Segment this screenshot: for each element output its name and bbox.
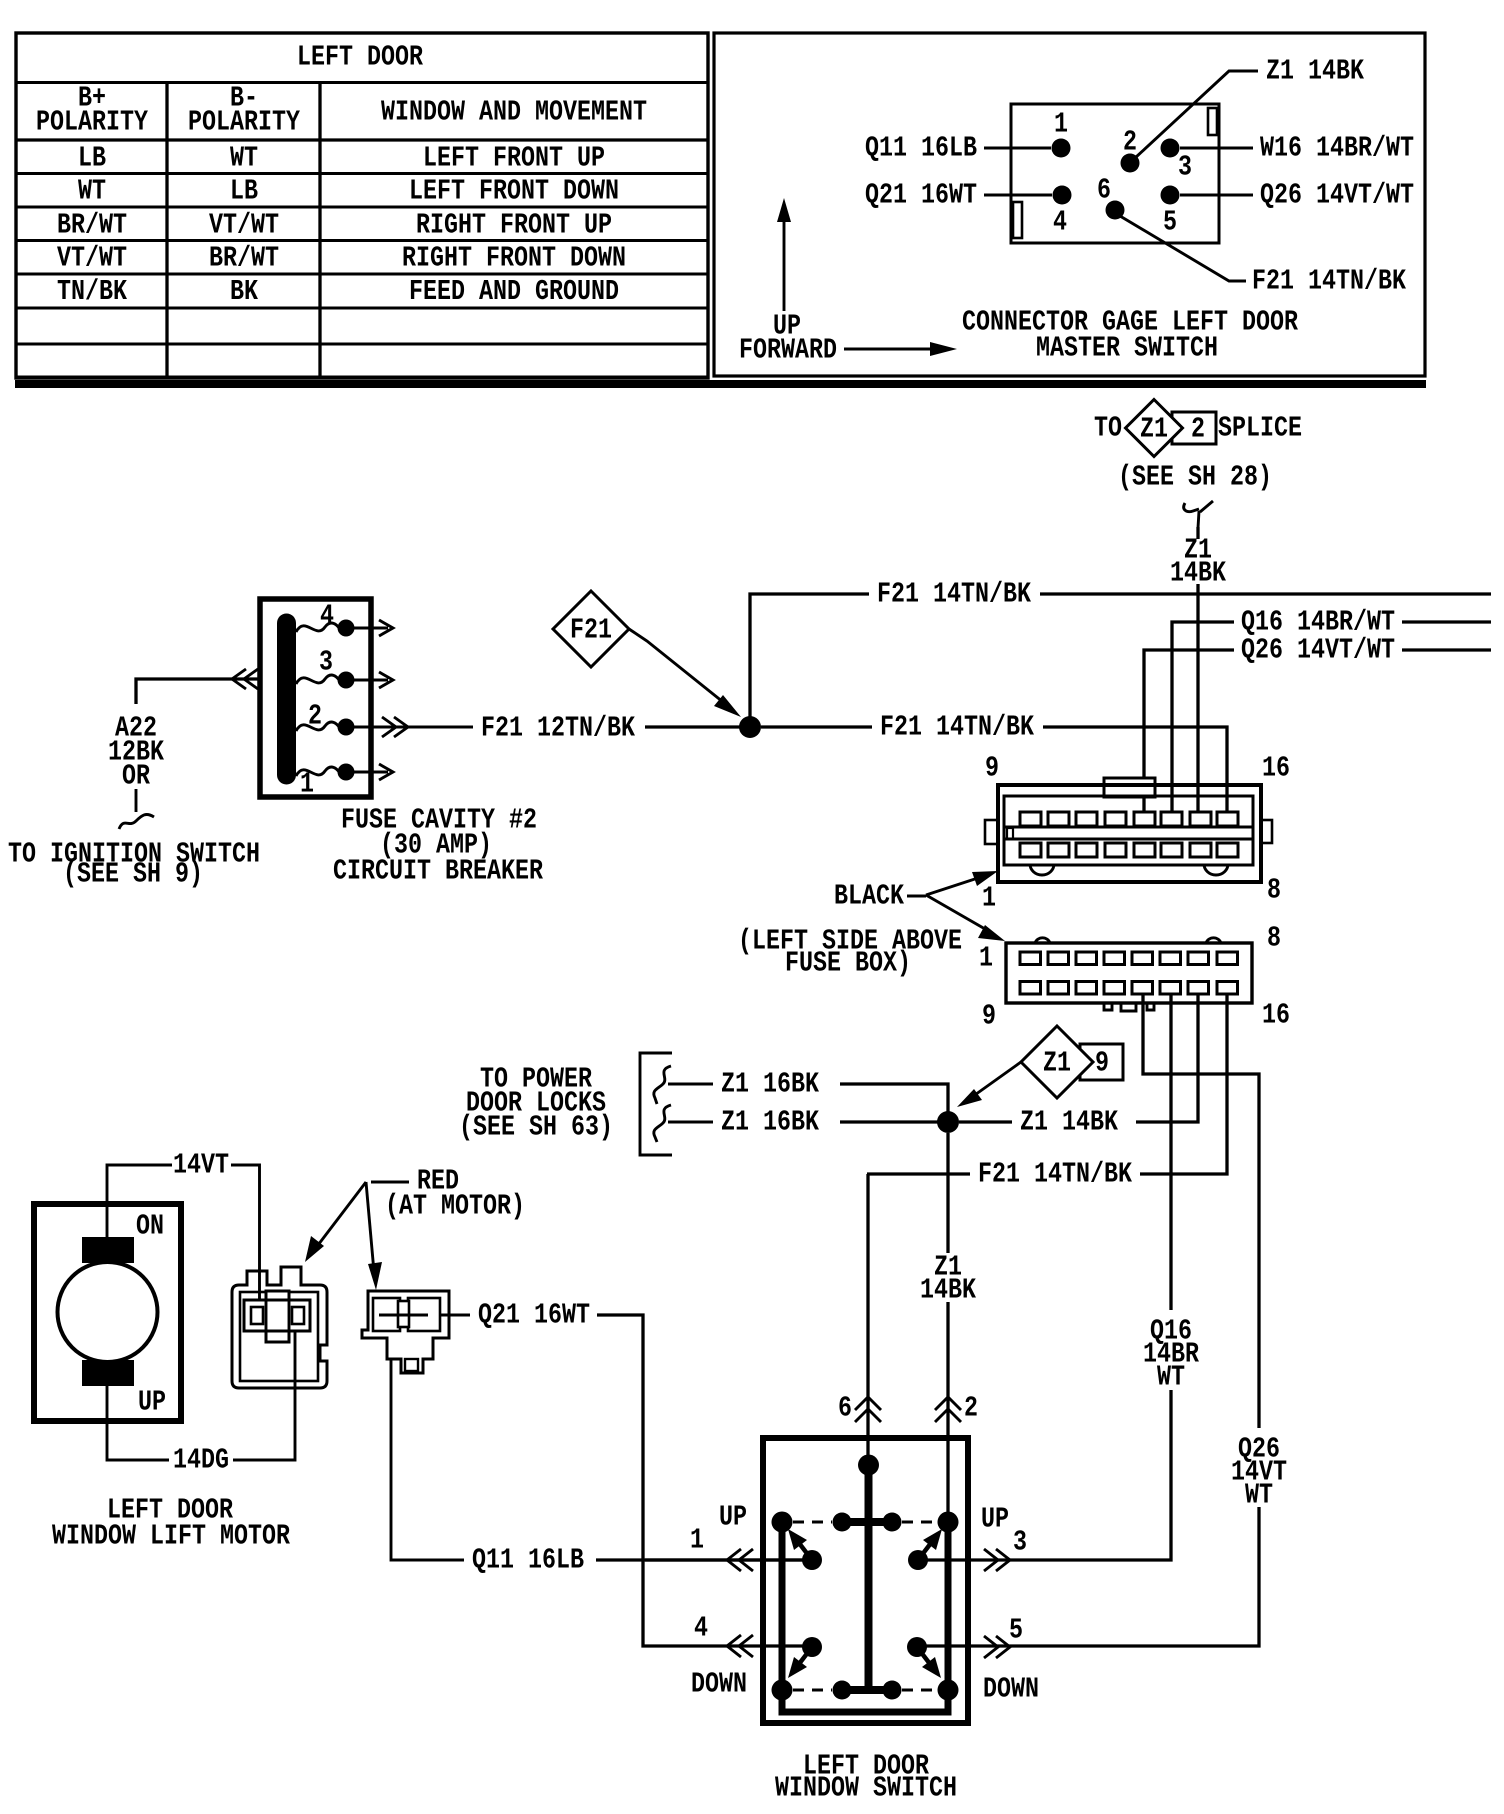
svg-text:BLACK: BLACK <box>834 880 904 913</box>
svg-text:16: 16 <box>1262 999 1290 1032</box>
svg-text:2: 2 <box>1123 126 1137 159</box>
svg-text:F21 14TN/BK: F21 14TN/BK <box>880 711 1034 744</box>
wire Q26 14VT/WT row <box>1144 634 1491 813</box>
caption connector gage <box>962 306 1298 365</box>
svg-text:1: 1 <box>300 768 314 801</box>
svg-text:(SEE SH 63): (SEE SH 63) <box>459 1111 613 1144</box>
switch center pole <box>842 1465 892 1690</box>
svg-text:Z1 16BK: Z1 16BK <box>721 1068 819 1101</box>
svg-text:BK: BK <box>230 275 258 308</box>
wire A22 from ignition switch <box>8 669 260 891</box>
svg-text:UP: UP <box>981 1503 1009 1536</box>
svg-text:MASTER SWITCH: MASTER SWITCH <box>1036 332 1218 365</box>
label W16 14BR/WT <box>1180 132 1414 165</box>
svg-text:4: 4 <box>1053 206 1067 239</box>
breaker pin 3 <box>296 646 393 689</box>
wire pin1 <box>645 1501 804 1572</box>
svg-text:Z1: Z1 <box>1140 413 1168 446</box>
caption left side above fuse box <box>738 925 962 980</box>
label Z1 14BK pin2 leader <box>1135 55 1364 159</box>
svg-text:(SEE SH 9): (SEE SH 9) <box>63 858 203 891</box>
wire Z1 14BK to switch pin 2 <box>920 1133 976 1522</box>
label Q21 16WT <box>865 179 1052 212</box>
switch row1 nodes <box>772 1512 959 1533</box>
svg-text:8: 8 <box>1267 922 1281 955</box>
left door window switch box <box>763 1438 968 1723</box>
switch pin3 contact with arrow <box>908 1529 942 1570</box>
C1 slots row 9-16 <box>1020 812 1238 826</box>
16-way connector C1 body <box>985 778 1272 882</box>
svg-text:Z1 16BK: Z1 16BK <box>721 1106 819 1139</box>
motor connector at 14VT <box>232 1267 327 1388</box>
label Q11 16LB <box>865 132 1051 165</box>
junction node Z1 <box>937 1111 959 1133</box>
svg-text:FORWARD: FORWARD <box>739 334 837 367</box>
switch pin1 contact with arrow <box>788 1529 822 1570</box>
wire Z1 14BK vertical label <box>1170 527 1226 812</box>
svg-text:WT: WT <box>1157 1361 1185 1394</box>
wire Q11 16LB <box>391 1359 804 1577</box>
wire Z1 16BK upper <box>668 1068 948 1113</box>
forward arrow <box>739 334 957 367</box>
svg-text:POLARITY: POLARITY <box>188 106 300 139</box>
svg-text:FUSE BOX): FUSE BOX) <box>785 947 911 980</box>
svg-text:(AT MOTOR): (AT MOTOR) <box>385 1190 525 1223</box>
svg-text:DOWN: DOWN <box>691 1668 747 1701</box>
wire Q16 14BR/WT vertical <box>927 994 1199 1560</box>
svg-text:TN/BK: TN/BK <box>57 275 127 308</box>
svg-text:RIGHT FRONT UP: RIGHT FRONT UP <box>416 209 612 242</box>
switch pin5 contact with arrow <box>907 1637 941 1678</box>
svg-text:5: 5 <box>1163 206 1177 239</box>
svg-text:1: 1 <box>982 882 996 915</box>
svg-text:4: 4 <box>320 600 334 633</box>
svg-text:Q11 16LB: Q11 16LB <box>865 132 977 165</box>
circuit breaker fuse cavity 2 <box>260 599 371 797</box>
label RED (AT MOTOR) <box>305 1165 525 1291</box>
svg-text:4: 4 <box>694 1612 708 1645</box>
svg-text:W16 14BR/WT: W16 14BR/WT <box>1260 132 1414 165</box>
svg-text:WINDOW LIFT MOTOR: WINDOW LIFT MOTOR <box>52 1520 290 1553</box>
svg-text:Q11 16LB: Q11 16LB <box>472 1544 584 1577</box>
svg-text:VT/WT: VT/WT <box>209 209 279 242</box>
svg-text:1: 1 <box>690 1524 704 1557</box>
svg-text:9: 9 <box>982 1000 996 1033</box>
svg-text:9: 9 <box>1095 1047 1109 1080</box>
wire Q21 16WT <box>441 1299 804 1647</box>
C2 slots row 9-16 <box>1020 982 1238 995</box>
svg-text:F21 14TN/BK: F21 14TN/BK <box>978 1158 1132 1191</box>
switch pin4 contact with arrow <box>788 1637 822 1678</box>
breaker pin 2 <box>296 700 473 738</box>
pin 6 <box>1097 174 1125 220</box>
wire Z1 16BK lower <box>668 1106 938 1139</box>
C1 pin labels <box>982 752 1290 915</box>
svg-text:FEED AND GROUND: FEED AND GROUND <box>409 275 619 308</box>
svg-text:3: 3 <box>1013 1526 1027 1559</box>
motor connector at Q21 <box>362 1291 449 1373</box>
wire pin3 <box>981 1503 1027 1572</box>
C2 slots row 1-8 <box>1020 952 1238 965</box>
svg-text:TO: TO <box>1094 412 1122 445</box>
F21 diamond callout <box>553 591 741 717</box>
svg-text:BR/WT: BR/WT <box>209 242 279 275</box>
switch contact frame <box>779 1522 952 1712</box>
left door window lift motor <box>34 1204 181 1421</box>
wire 14VT <box>107 1149 260 1313</box>
wire F21 to switch pin 6 <box>866 1174 869 1465</box>
svg-text:F21: F21 <box>570 614 612 647</box>
wire Z1 14BK to connector pin 15 <box>959 994 1198 1139</box>
junction node F21 <box>739 716 761 738</box>
caption lift motor <box>52 1494 290 1553</box>
svg-text:LEFT FRONT DOWN: LEFT FRONT DOWN <box>409 175 619 208</box>
C1 slots row 1-8 <box>1020 843 1238 857</box>
svg-text:WT: WT <box>1245 1479 1273 1512</box>
svg-text:(SEE SH 28): (SEE SH 28) <box>1118 461 1272 494</box>
splice symbol <box>1184 501 1213 528</box>
svg-text:Z1 14BK: Z1 14BK <box>1020 1106 1118 1139</box>
table bottom heavy rule <box>15 380 1426 388</box>
svg-text:WT: WT <box>78 175 106 208</box>
wire break symbol 2 <box>654 1105 671 1142</box>
svg-text:9: 9 <box>985 752 999 785</box>
svg-text:6: 6 <box>838 1392 852 1425</box>
svg-text:Z1 14BK: Z1 14BK <box>1266 55 1364 88</box>
svg-text:F21 14TN/BK: F21 14TN/BK <box>877 578 1031 611</box>
svg-text:POLARITY: POLARITY <box>36 106 148 139</box>
svg-text:14DG: 14DG <box>173 1444 229 1477</box>
table row lines <box>16 81 708 84</box>
C2 pin labels <box>979 922 1290 1033</box>
caption window switch <box>775 1750 957 1805</box>
wire 14DG <box>107 1330 295 1477</box>
switch bottom nodes <box>772 1680 959 1701</box>
svg-text:16: 16 <box>1262 752 1290 785</box>
svg-text:BR/WT: BR/WT <box>57 209 127 242</box>
svg-text:LEFT DOOR: LEFT DOOR <box>297 41 423 74</box>
svg-text:LEFT FRONT UP: LEFT FRONT UP <box>423 142 605 175</box>
left door table <box>15 33 1426 388</box>
svg-text:1: 1 <box>979 942 993 975</box>
svg-text:2: 2 <box>308 700 322 733</box>
pin 1 <box>1052 108 1071 158</box>
table column lines <box>165 83 168 380</box>
svg-text:WINDOW AND MOVEMENT: WINDOW AND MOVEMENT <box>381 96 647 129</box>
svg-text:F21 12TN/BK: F21 12TN/BK <box>481 712 635 745</box>
svg-text:Z1: Z1 <box>1043 1047 1071 1080</box>
wire F21 14TN/BK upper row <box>750 578 1491 728</box>
caption fuse cavity <box>333 804 543 888</box>
svg-text:14BK: 14BK <box>920 1274 976 1307</box>
chevrons pin6 <box>838 1392 881 1425</box>
pin 4 <box>1053 186 1072 239</box>
svg-text:8: 8 <box>1267 874 1281 907</box>
wire pin4 <box>691 1612 753 1701</box>
connector gage left door master switch body <box>1011 104 1219 243</box>
svg-text:LB: LB <box>230 175 258 208</box>
svg-text:CIRCUIT BREAKER: CIRCUIT BREAKER <box>333 855 543 888</box>
svg-text:OR: OR <box>122 760 150 793</box>
label F21 14TN/BK pin6 leader <box>1120 216 1406 298</box>
breaker pin 1 <box>296 764 393 801</box>
svg-text:F21 14TN/BK: F21 14TN/BK <box>1252 265 1406 298</box>
svg-text:DOWN: DOWN <box>983 1673 1039 1706</box>
16-way connector C2 body <box>1006 938 1252 1011</box>
svg-text:3: 3 <box>319 646 333 679</box>
label Q26 14VT/WT pin5 <box>1180 179 1414 212</box>
wire Q16 14BR/WT row <box>1172 606 1491 813</box>
connector gage header box <box>714 33 1425 376</box>
wire pin5 <box>983 1614 1039 1706</box>
pin 5 <box>1161 186 1180 239</box>
wire break symbol 1 <box>654 1066 671 1104</box>
splice callout TO Z1 2 SPLICE <box>1094 400 1302 494</box>
svg-text:5: 5 <box>1009 1614 1023 1647</box>
Z1 9 splice callout <box>957 1026 1123 1107</box>
switch common node pin6 <box>858 1455 879 1476</box>
svg-text:UP: UP <box>719 1501 747 1534</box>
wire F21 14TN/BK lower row <box>867 994 1227 1191</box>
wire Q26 14VT/WT vertical <box>926 994 1287 1646</box>
label BLACK with arrows <box>834 871 1005 941</box>
svg-text:VT/WT: VT/WT <box>57 242 127 275</box>
svg-text:Q26 14VT/WT: Q26 14VT/WT <box>1241 634 1395 667</box>
up arrow <box>773 198 801 343</box>
svg-text:SPLICE: SPLICE <box>1218 412 1302 445</box>
svg-text:14VT: 14VT <box>173 1149 229 1182</box>
svg-text:Q26 14VT/WT: Q26 14VT/WT <box>1260 179 1414 212</box>
svg-text:UP: UP <box>138 1386 166 1419</box>
svg-text:Q21 16WT: Q21 16WT <box>865 179 977 212</box>
svg-text:3: 3 <box>1178 151 1192 184</box>
svg-text:6: 6 <box>1097 174 1111 207</box>
breaker pin 4 <box>296 600 393 637</box>
chevrons pin2 <box>935 1392 978 1425</box>
svg-text:RIGHT FRONT DOWN: RIGHT FRONT DOWN <box>402 242 626 275</box>
svg-text:LB: LB <box>78 142 106 175</box>
svg-text:1: 1 <box>1054 108 1068 141</box>
wire F21 12TN/BK <box>481 712 740 745</box>
svg-text:ON: ON <box>136 1210 164 1243</box>
wire F21 14TN/BK to connector pin 16 <box>761 711 1227 813</box>
svg-text:WINDOW SWITCH: WINDOW SWITCH <box>775 1772 957 1805</box>
pin 2 <box>1121 126 1140 173</box>
svg-text:2: 2 <box>964 1392 978 1425</box>
svg-text:2: 2 <box>1191 413 1205 446</box>
pin 3 <box>1161 139 1193 184</box>
svg-text:WT: WT <box>230 142 258 175</box>
svg-text:Q21 16WT: Q21 16WT <box>478 1299 590 1332</box>
to power door locks callout <box>459 1053 672 1155</box>
